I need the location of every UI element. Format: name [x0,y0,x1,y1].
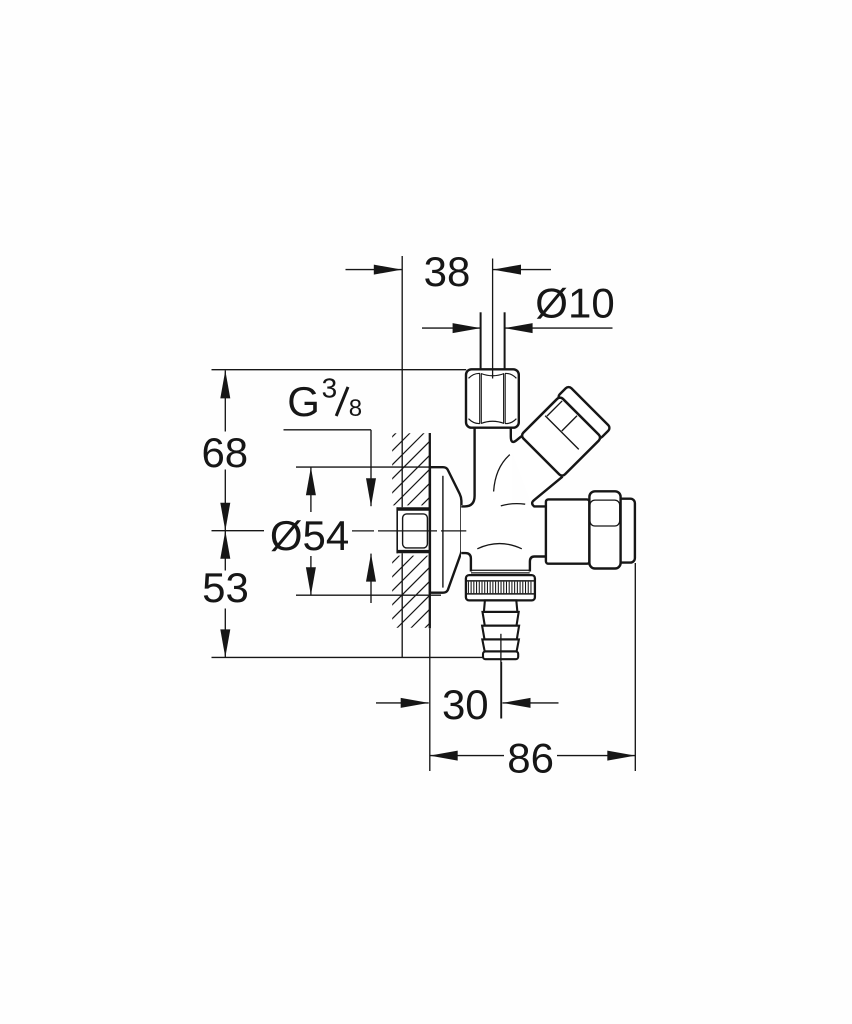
hose union end piece (behind) [600,499,635,563]
dimension O10 [422,327,481,329]
body interior throat arc right [501,504,525,506]
inlet pipe O10 [480,312,482,369]
boss height arrow lower [370,554,372,603]
cap division line [545,416,579,450]
valve headwork at 45deg: bonnet band (behind) [519,385,611,477]
centerline: valve horizontal axis [352,530,374,532]
wall hatching (masonry section) [388,395,434,693]
dimension 86 [430,755,504,757]
wire: mid extension tick at valve centerline (68/53 junction) [212,530,265,532]
valve body white underlay [461,427,547,576]
wire: O54 bottom extension line [296,594,441,596]
knurled ring [466,575,535,600]
label G 3/8 with leader [284,429,372,431]
dimension 30 [376,702,429,704]
centerline: inlet pipe [492,259,494,379]
svg-text:86: 86 [507,734,554,781]
wall flange (escutcheon) O54 [430,467,462,593]
wire: right extension line for 86 (from hose coupling) [634,563,636,771]
nut chamfer arcs bottom [469,419,517,424]
inlet tube below union nut, left edge with fillet to waist [461,428,474,507]
thread boss G3/8 behind wall [397,507,429,553]
hose barb rib 3 [482,639,519,651]
centerline: hose barb outlet [500,634,502,719]
svg-text:8: 8 [349,395,362,422]
svg-text:G: G [287,378,320,425]
nut facet lines [479,374,481,423]
headwork cap / hex body [520,396,601,477]
body interior transition arc upper-left [494,455,510,492]
union nut on inlet [466,369,519,427]
right port bottom edge with fillet down to ring [530,557,546,572]
dimension 53 [224,531,226,571]
hex facet line 2 [562,416,577,431]
hex facet line 1 [547,401,562,416]
hose union swivel sleeve [589,491,620,568]
sleeve reflection detail [590,500,620,526]
hose union nut [546,499,590,563]
collar washer lines [471,569,530,571]
body waist bottom-left with fillet down to ring [461,553,471,571]
svg-text:53: 53 [202,564,249,611]
hose barb rib 2 [482,626,519,640]
svg-text:3: 3 [322,373,338,404]
45deg neck lower edge with fillet to right port [532,477,562,507]
inlet tube right edge with fillet to 45deg neck [511,428,522,442]
dimension 38 [346,269,402,271]
svg-text:68: 68 [201,429,248,476]
flange face line [442,476,444,588]
node: drawing baseline (53 bottom / overall bottom line) [212,656,518,658]
wire: extension line below wall to 30/86 dimensions [429,628,431,771]
dimension O54 [310,467,312,512]
hose barb end cap [483,651,518,659]
svg-text:Ø54: Ø54 [270,512,349,559]
wire: extension tick for 30 (hose barb centerline) [501,662,503,719]
hose barb: neck [484,600,518,612]
wire: top extension line (68 top, touches union nut) [212,369,467,371]
body interior bottom bulge arc [477,544,522,549]
wire: O54 top extension line [296,466,430,468]
svg-text:38: 38 [424,248,471,295]
nut chamfer arcs top [469,373,517,378]
wire: dimension extension line from thread boss face (38 ref) [401,256,403,657]
svg-text:Ø10: Ø10 [535,279,614,326]
wall front face line [429,433,431,628]
right port connecting lines [546,505,547,507]
svg-text:30: 30 [442,681,489,728]
hose barb rib 1 [483,612,519,626]
knurl lines [468,582,531,594]
dimension 68 [224,370,226,431]
